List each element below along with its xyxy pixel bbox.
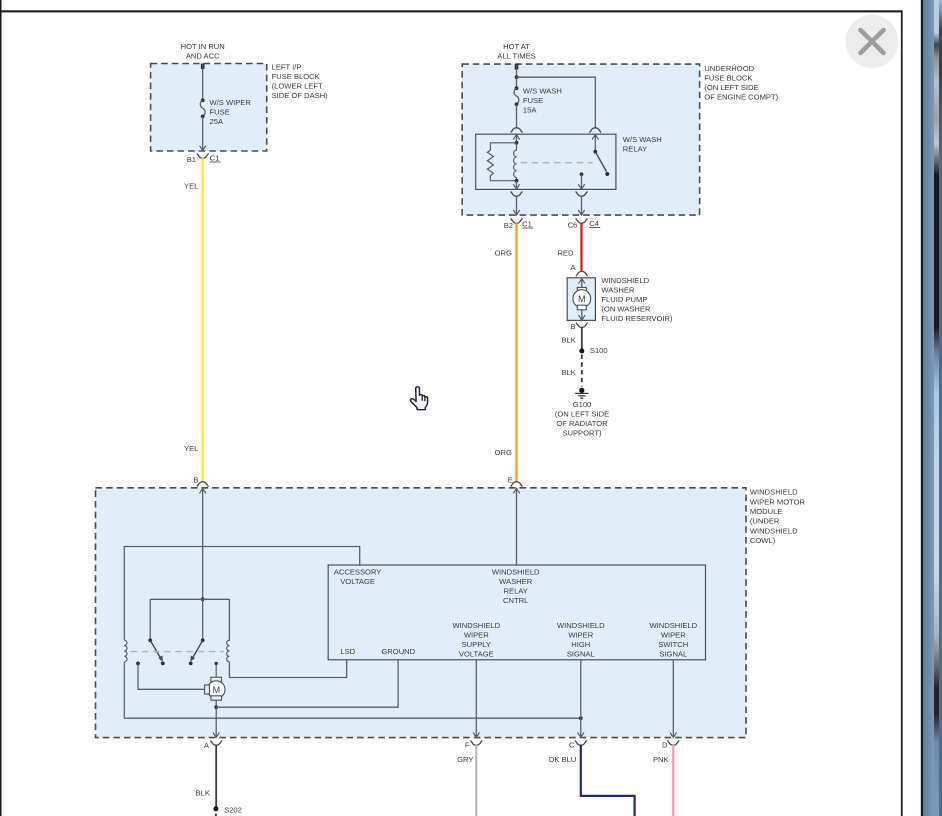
motor top contact: [215, 662, 218, 665]
connector C6/C4: [576, 219, 588, 224]
svg-text:SUPPORT): SUPPORT): [562, 429, 602, 438]
svg-text:WIPER: WIPER: [464, 630, 489, 639]
fuse W/S WASH 15A: [516, 77, 518, 87]
svg-text:LSD: LSD: [340, 647, 355, 656]
fuse block underhood (dashed box): [462, 64, 699, 215]
pump motor M: [577, 287, 586, 292]
side image strip band: [934, 0, 939, 816]
svg-text:BLK: BLK: [561, 335, 575, 344]
svg-text:VOLTAGE: VOLTAGE: [340, 577, 375, 586]
svg-text:C4: C4: [589, 219, 599, 228]
wire DK BLU: [581, 745, 635, 816]
relay output connector arcs: [511, 192, 523, 197]
svg-text:FLUID PUMP: FLUID PUMP: [601, 295, 647, 304]
wire B into module: [202, 489, 204, 600]
park coil left: [124, 640, 127, 718]
wiper park switch right: [202, 599, 204, 640]
washer fluid pump (box): [567, 278, 595, 321]
svg-text:15A: 15A: [523, 106, 537, 115]
fuse block left I/P (dashed box): [151, 64, 267, 152]
side image strip dark edge: [921, 0, 923, 816]
wire switch feed bar: [150, 598, 229, 600]
svg-text:RELAY: RELAY: [504, 587, 528, 596]
svg-text:WINDSHIELD: WINDSHIELD: [750, 488, 798, 497]
park switch linkage (dashed): [131, 651, 225, 653]
wire motor out to A: [215, 707, 217, 737]
wiper park switch left: [149, 599, 151, 640]
resistor (parallel with coil): [487, 143, 516, 181]
svg-text:SWITCH: SWITCH: [658, 640, 688, 649]
svg-text:COWL): COWL): [750, 536, 776, 545]
svg-text:FUSE: FUSE: [210, 108, 230, 117]
close button: [846, 15, 899, 68]
node C exit: [575, 741, 587, 746]
wire fuse to relay coil: [516, 104, 518, 127]
svg-text:(ON WASHER: (ON WASHER: [601, 305, 651, 314]
wire BLK pump to S100: [581, 327, 583, 349]
wire motor to ground junction: [215, 700, 217, 707]
svg-text:W/S WIPER: W/S WIPER: [210, 98, 252, 107]
svg-text:B: B: [193, 476, 198, 485]
wiper motor module (dashed box): [96, 488, 747, 738]
splice S202: [213, 806, 218, 811]
svg-text:YEL: YEL: [184, 182, 198, 191]
svg-text:RELAY: RELAY: [623, 144, 647, 153]
svg-text:WINDSHIELD: WINDSHIELD: [452, 621, 500, 630]
wire E to washer relay cntrl: [516, 489, 518, 565]
wire ground bus bottom: [124, 717, 581, 719]
wire PNK: [672, 745, 674, 816]
relay switch output contact: [580, 172, 584, 176]
svg-text:WINDSHIELD: WINDSHIELD: [649, 621, 697, 630]
frame right border: [901, 10, 903, 816]
svg-text:WINDSHIELD: WINDSHIELD: [492, 568, 540, 577]
wire feed into left fuse block: [201, 64, 205, 69]
frame top border: [0, 10, 903, 12]
svg-text:WINDSHIELD: WINDSHIELD: [601, 276, 649, 285]
svg-text:WIPER MOTOR: WIPER MOTOR: [750, 497, 806, 506]
svg-text:OF ENGINE COMPT): OF ENGINE COMPT): [704, 93, 778, 102]
relay coil: [514, 143, 517, 181]
svg-text:C6: C6: [568, 220, 578, 229]
wire fuse to connector: [202, 116, 204, 150]
svg-text:WIPER: WIPER: [661, 630, 686, 639]
wire ORG: [515, 223, 517, 482]
wiper module control unit (box): [328, 565, 705, 660]
svg-text:C: C: [569, 741, 575, 750]
relay coil leg entry arrow: [513, 135, 519, 140]
svg-text:WINDSHIELD: WINDSHIELD: [750, 526, 798, 535]
wire RED: [580, 223, 582, 271]
svg-text:YEL: YEL: [184, 444, 198, 453]
ground G100: [579, 388, 584, 393]
svg-text:F: F: [465, 741, 470, 750]
svg-text:W/S WASH: W/S WASH: [623, 135, 662, 144]
wire feed into underhood block: [515, 64, 519, 69]
fuse W/S WIPER 25A: [201, 98, 205, 102]
node F exit: [470, 741, 482, 746]
svg-text:WASHER: WASHER: [601, 286, 635, 295]
wire HIGH SIGNAL to C: [580, 660, 582, 737]
svg-text:VOLTAGE: VOLTAGE: [459, 649, 494, 658]
connector B1/C1: [197, 154, 209, 159]
svg-text:RED: RED: [557, 248, 574, 257]
svg-text:UNDERHOOD: UNDERHOOD: [704, 64, 754, 73]
svg-text:PNK: PNK: [653, 755, 669, 764]
svg-text:HOT IN RUN: HOT IN RUN: [181, 42, 225, 51]
node A exit: [210, 741, 222, 746]
park coil right + LSD wire: [227, 599, 347, 677]
svg-text:ORG: ORG: [495, 448, 512, 457]
svg-text:FLUID RESERVOIR): FLUID RESERVOIR): [601, 314, 673, 323]
svg-text:GRY: GRY: [457, 755, 473, 764]
wire motor junction to GROUND pin: [216, 660, 398, 707]
svg-text:(ON LEFT SIDE: (ON LEFT SIDE: [555, 410, 609, 419]
svg-text:B1: B1: [187, 155, 196, 164]
wire branch to relay contact: [517, 77, 596, 127]
wire accessory voltage loop: [124, 547, 359, 640]
cursor (hand pointer): [410, 387, 427, 410]
svg-text:(UNDER: (UNDER: [750, 517, 780, 526]
side image strip main: [923, 0, 934, 816]
svg-text:WINDSHIELD: WINDSHIELD: [557, 621, 605, 630]
wiper motor contact wire: [136, 662, 140, 666]
svg-text:FUSE BLOCK: FUSE BLOCK: [704, 74, 752, 83]
wire BLK to S202: [215, 745, 217, 809]
wires relay to block edge: [516, 196, 518, 215]
svg-text:SIDE OF DASH): SIDE OF DASH): [272, 91, 329, 100]
junction dot: [515, 75, 519, 79]
svg-text:25A: 25A: [210, 117, 224, 126]
svg-text:W/S WASH: W/S WASH: [523, 87, 562, 96]
svg-text:SIGNAL: SIGNAL: [659, 649, 687, 658]
svg-text:SUPPLY: SUPPLY: [462, 640, 491, 649]
wire SUPPLY VOLTAGE to F: [475, 660, 477, 737]
svg-text:LEFT I/P: LEFT I/P: [272, 62, 302, 71]
relay linkage (dashed): [521, 162, 593, 164]
svg-text:DK BLU: DK BLU: [549, 755, 576, 764]
svg-text:AND ACC: AND ACC: [186, 52, 220, 61]
relay W/S WASH RELAY (box): [476, 134, 616, 189]
connector B2/C1: [511, 219, 523, 224]
svg-text:M: M: [213, 685, 221, 695]
svg-text:(LOWER LEFT: (LOWER LEFT: [272, 81, 323, 90]
frame left border: [0, 0, 2, 816]
svg-text:BLK: BLK: [196, 788, 210, 797]
junction node B inside module: [201, 597, 205, 601]
svg-text:D: D: [662, 741, 668, 750]
svg-text:ALL TIMES: ALL TIMES: [497, 52, 535, 61]
svg-text:M: M: [578, 294, 586, 304]
svg-text:S202: S202: [224, 806, 242, 815]
svg-text:MODULE: MODULE: [750, 507, 783, 516]
svg-text:FUSE: FUSE: [523, 96, 543, 105]
svg-text:WASHER: WASHER: [499, 577, 533, 586]
svg-text:C1: C1: [522, 219, 532, 228]
svg-text:CNTRL: CNTRL: [503, 596, 528, 605]
svg-text:C1: C1: [210, 153, 220, 162]
svg-text:(ON LEFT SIDE: (ON LEFT SIDE: [704, 83, 758, 92]
side image strip right edge: [939, 0, 942, 816]
svg-text:S100: S100: [590, 346, 608, 355]
wire BLK S100 to G100 (dashed): [581, 355, 583, 387]
svg-text:HIGH: HIGH: [571, 640, 590, 649]
svg-text:FUSE BLOCK: FUSE BLOCK: [272, 72, 320, 81]
connector arcs above relay: [511, 128, 523, 133]
svg-text:OF RADIATOR: OF RADIATOR: [556, 419, 608, 428]
wire SWITCH SIGNAL to D: [672, 660, 674, 737]
svg-text:WIPER: WIPER: [568, 630, 593, 639]
svg-text:HOT AT: HOT AT: [503, 42, 530, 51]
svg-text:G100: G100: [573, 400, 592, 409]
svg-text:E: E: [508, 476, 513, 485]
relay coil leg exit: [516, 181, 518, 189]
splice S100: [579, 349, 584, 354]
svg-text:B2: B2: [504, 221, 513, 230]
svg-text:ACCESSORY: ACCESSORY: [334, 568, 382, 577]
relay switch: [592, 135, 598, 140]
wire YEL: [202, 158, 204, 482]
svg-text:ORG: ORG: [495, 248, 512, 257]
wiper motor M: [211, 677, 222, 683]
node D exit: [667, 741, 679, 746]
svg-text:BLK: BLK: [561, 368, 575, 377]
svg-text:SIGNAL: SIGNAL: [567, 649, 595, 658]
wire GRY: [475, 745, 477, 816]
svg-text:B: B: [570, 322, 575, 331]
svg-text:GROUND: GROUND: [381, 647, 415, 656]
